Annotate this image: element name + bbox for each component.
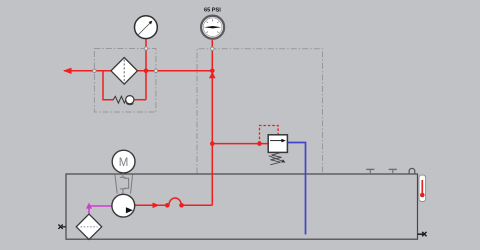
svg-text:M: M (119, 157, 129, 169)
svg-text:65 PSI: 65 PSI (204, 8, 221, 14)
